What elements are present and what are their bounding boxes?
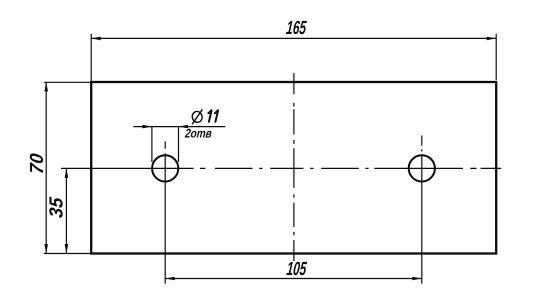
svg-text:165: 165 — [285, 19, 307, 39]
svg-text:2отв: 2отв — [183, 128, 212, 141]
svg-text:70: 70 — [26, 152, 47, 175]
arrow right — [412, 277, 422, 281]
dimension 70 (left outer) — [44, 82, 90, 254]
dimension 105 (bottom, between hole axes) — [165, 277, 422, 281]
extension line top — [44, 81, 90, 83]
arrow down — [65, 244, 69, 254]
svg-text:35: 35 — [45, 196, 66, 219]
plate outline 165x70 — [91, 82, 496, 254]
arrow right (outside left) — [142, 125, 152, 129]
arrow left — [165, 277, 175, 281]
dimension line — [165, 278, 422, 280]
hole 2 (right, d11) — [409, 155, 435, 181]
hole 1 (left, d11) — [152, 155, 178, 181]
arrow left (outside right) — [179, 125, 189, 129]
extension line bottom — [44, 253, 90, 255]
callout d11, 2 holes — [133, 125, 225, 162]
svg-text:105: 105 — [286, 259, 308, 279]
dimension 165 (top) — [91, 34, 496, 81]
dimension/leader line — [133, 126, 225, 128]
extension line left tangent — [151, 127, 153, 162]
extension line right tangent — [178, 127, 180, 162]
dimension line — [45, 82, 47, 254]
dimension line — [65, 168, 67, 253]
diameter symbol — [191, 109, 203, 124]
dimension 35 (left inner) — [65, 168, 69, 253]
centerline: vertical axis of plate middle — [293, 73, 295, 261]
arrow right — [487, 37, 497, 41]
text 11 — [208, 110, 218, 121]
arrow down — [44, 244, 48, 254]
extension line right — [495, 34, 497, 80]
arrow up — [65, 168, 69, 178]
centerline: vertical axis of hole 2 — [421, 136, 423, 284]
centerline: horizontal axis through both holes — [61, 167, 501, 169]
centerline: vertical axis of hole 1 — [164, 141, 166, 283]
extension line left — [90, 34, 92, 81]
arrow up — [44, 82, 48, 92]
dimension line — [91, 37, 496, 39]
arrow left — [91, 37, 101, 41]
